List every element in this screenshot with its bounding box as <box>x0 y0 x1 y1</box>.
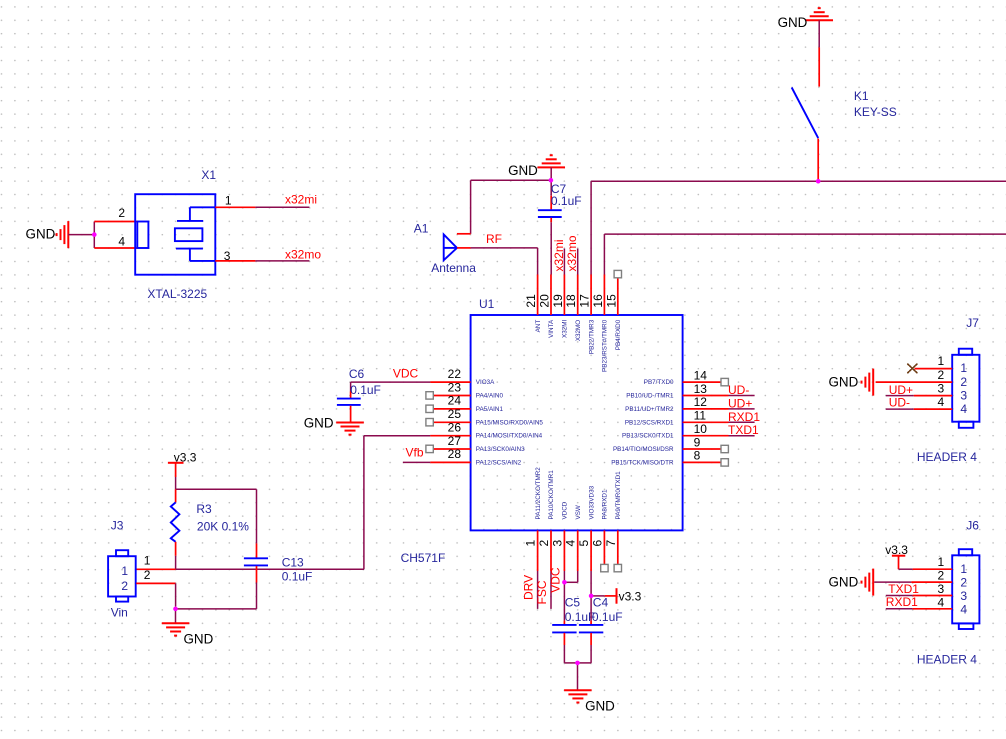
no-connect marker pin 27 <box>426 445 433 452</box>
svg-text:4: 4 <box>938 595 945 609</box>
junction at C7 top <box>549 178 554 183</box>
svg-text:14: 14 <box>694 368 708 382</box>
svg-text:PB11/UD+/TMR2: PB11/UD+/TMR2 <box>625 406 674 413</box>
svg-text:RXD1: RXD1 <box>728 410 760 424</box>
power symbol GND (at C6) <box>304 416 364 435</box>
svg-text:0.1uF: 0.1uF <box>551 194 582 208</box>
wire <box>93 222 95 249</box>
svg-text:CH571F: CH571F <box>401 551 446 565</box>
svg-text:UD-: UD- <box>889 396 910 410</box>
svg-text:27: 27 <box>448 434 462 448</box>
svg-text:PB14/TIO/MOSI/DSR: PB14/TIO/MOSI/DSR <box>613 446 674 453</box>
svg-text:19: 19 <box>551 294 565 308</box>
svg-text:RXD1: RXD1 <box>886 595 918 609</box>
svg-text:Antenna: Antenna <box>431 261 476 275</box>
svg-text:2: 2 <box>537 540 551 547</box>
net label FSC (vertical) <box>535 580 549 604</box>
X1 pin number 3 <box>224 249 231 263</box>
svg-text:PA4/AIN0: PA4/AIN0 <box>476 393 504 400</box>
J7 designator <box>966 316 979 330</box>
wire <box>471 248 538 275</box>
wire <box>175 556 177 570</box>
C13 designator <box>282 555 304 569</box>
svg-text:2: 2 <box>118 206 125 220</box>
svg-text:ANT: ANT <box>535 320 542 333</box>
svg-text:PB4/RXD0: PB4/RXD0 <box>615 319 622 350</box>
svg-text:6: 6 <box>590 540 604 547</box>
svg-text:18: 18 <box>564 294 578 308</box>
wire <box>471 179 551 181</box>
svg-text:2: 2 <box>938 368 945 382</box>
svg-text:GND: GND <box>184 632 214 647</box>
svg-text:C5: C5 <box>565 596 581 610</box>
wire <box>94 247 137 249</box>
J6 pin number 2 <box>938 568 945 582</box>
J7 pin number 1 <box>938 354 945 368</box>
C7 designator <box>551 182 567 196</box>
svg-text:UD+: UD+ <box>728 396 752 410</box>
wire <box>68 234 94 236</box>
no-ERC marker (X) on J7 pin 1 <box>908 364 917 373</box>
svg-text:RF: RF <box>486 232 502 246</box>
wire <box>603 234 605 274</box>
wire <box>564 571 577 582</box>
wire <box>537 571 539 609</box>
resistor R3 <box>171 489 180 556</box>
R3 value 20K 0.1% <box>197 520 249 534</box>
svg-text:13: 13 <box>694 382 708 396</box>
wire <box>590 571 592 595</box>
no-connect marker pin 15 <box>614 270 621 277</box>
svg-text:v3.3: v3.3 <box>619 590 642 604</box>
junction at K1 / net to pin 17 <box>816 179 821 184</box>
connector J7 <box>952 349 979 428</box>
wire <box>591 180 1006 182</box>
svg-text:3: 3 <box>550 540 564 547</box>
net label x32mo <box>285 248 321 262</box>
wire <box>403 461 430 463</box>
wire <box>886 595 952 597</box>
svg-text:DRV: DRV <box>522 575 536 600</box>
svg-text:VINTA: VINTA <box>548 319 555 338</box>
wire <box>886 608 952 610</box>
net label TXD1 (J6) <box>888 582 919 596</box>
svg-text:UD-: UD- <box>728 383 749 397</box>
svg-text:J6: J6 <box>966 518 979 532</box>
wire <box>457 247 471 249</box>
svg-text:C4: C4 <box>593 596 609 610</box>
net label RF <box>486 232 502 246</box>
no-connect marker pin 6 <box>601 564 608 571</box>
wire <box>591 595 605 597</box>
C6 value 0.1uF <box>350 383 381 397</box>
svg-text:TXD1: TXD1 <box>728 423 759 437</box>
svg-text:K1: K1 <box>854 89 869 103</box>
svg-text:FSC: FSC <box>535 580 549 604</box>
capacitor C13 <box>176 489 269 609</box>
U1 bottom pin numbers <box>524 540 618 547</box>
C7 value 0.1uF <box>551 194 582 208</box>
svg-text:x32mi: x32mi <box>285 193 317 207</box>
C5 value 0.1uF <box>565 610 596 624</box>
svg-text:26: 26 <box>448 421 462 435</box>
junction node at X1 pins 2/4 <box>92 232 97 237</box>
svg-text:12: 12 <box>694 395 708 409</box>
svg-text:PB22/TMR3: PB22/TMR3 <box>588 319 595 354</box>
net label x32mi (vertical) <box>552 239 566 271</box>
net label x32mi <box>285 193 317 207</box>
J6 value HEADER 4 <box>917 652 977 666</box>
svg-text:1: 1 <box>938 555 945 569</box>
svg-text:PA14/MOSI/TXD0/AIN4: PA14/MOSI/TXD0/AIN4 <box>476 433 543 440</box>
svg-text:GND: GND <box>304 416 334 431</box>
wire <box>351 381 431 383</box>
wire <box>604 233 1006 235</box>
J6 designator <box>966 518 979 532</box>
wire <box>886 408 952 410</box>
svg-text:PB23/RST#/TMR0: PB23/RST#/TMR0 <box>602 319 609 372</box>
power symbol GND (at J6) <box>829 569 874 596</box>
wire <box>215 260 309 262</box>
antenna A1 <box>414 221 476 275</box>
svg-text:X32MI: X32MI <box>562 320 569 338</box>
svg-text:VDC: VDC <box>548 567 562 593</box>
J3 pin number 1 <box>144 554 151 568</box>
svg-text:J3: J3 <box>111 518 124 532</box>
svg-text:v3.3: v3.3 <box>885 543 908 557</box>
wire <box>550 571 552 609</box>
J7 pin number 2 <box>938 368 945 382</box>
junction at C5/C4 ground <box>575 661 580 666</box>
svg-text:PA13/SCK0/AIN3: PA13/SCK0/AIN3 <box>476 446 525 453</box>
net label TXD1 <box>728 423 759 437</box>
J6 pin number 1 <box>938 555 945 569</box>
svg-text:25: 25 <box>448 407 462 421</box>
wire <box>563 571 565 581</box>
svg-text:HEADER 4: HEADER 4 <box>917 652 977 666</box>
no-connect marker pin 14 <box>721 378 728 385</box>
svg-text:8: 8 <box>694 449 701 463</box>
svg-text:J7: J7 <box>966 316 979 330</box>
U1 bottom pin names <box>535 467 622 520</box>
power symbol GND (at X1) <box>26 221 69 248</box>
svg-text:17: 17 <box>578 294 592 308</box>
X1 pin number 4 <box>118 234 125 248</box>
svg-text:4: 4 <box>564 540 578 547</box>
svg-text:GND: GND <box>508 163 538 178</box>
connector J3 <box>108 550 136 601</box>
svg-text:PA5/AIN1: PA5/AIN1 <box>476 406 504 413</box>
U1 right pin names <box>611 379 674 466</box>
X1 designator <box>201 168 216 182</box>
power symbol GND (bottom) <box>564 690 615 713</box>
svg-text:PA9/TMR0/TXD1: PA9/TMR0/TXD1 <box>615 471 622 520</box>
svg-text:GND: GND <box>829 575 859 590</box>
svg-text:VDC: VDC <box>393 367 419 381</box>
svg-text:GND: GND <box>778 15 808 30</box>
no-connect marker pin 8 <box>721 459 728 466</box>
power symbol v3.3 (at R3) <box>168 450 197 477</box>
svg-text:5: 5 <box>577 540 591 547</box>
svg-text:0.1uF: 0.1uF <box>592 610 623 624</box>
wire <box>563 249 565 275</box>
wire <box>729 395 755 397</box>
svg-text:20K 0.1%: 20K 0.1% <box>197 520 249 534</box>
svg-text:A1: A1 <box>414 221 429 235</box>
U1 left pin numbers <box>448 367 462 461</box>
capacitor C4 <box>578 596 604 663</box>
wire <box>470 180 472 234</box>
svg-text:X1: X1 <box>201 168 216 182</box>
capacitor C7 <box>538 180 562 274</box>
svg-text:XTAL-3225: XTAL-3225 <box>147 287 207 301</box>
svg-text:VSW: VSW <box>575 505 582 519</box>
svg-text:3: 3 <box>960 388 967 402</box>
svg-text:v3.3: v3.3 <box>174 450 197 464</box>
net label VDC <box>393 367 419 381</box>
net label RXD1 (J6) <box>886 595 918 609</box>
svg-text:PA11/2CKO/TMR2: PA11/2CKO/TMR2 <box>535 467 542 520</box>
wire <box>364 436 430 570</box>
svg-text:GND: GND <box>829 374 859 389</box>
wire <box>886 395 952 397</box>
J7 value HEADER 4 <box>917 450 977 464</box>
svg-text:4: 4 <box>960 402 967 416</box>
svg-text:2: 2 <box>144 568 151 582</box>
svg-text:1: 1 <box>938 354 945 368</box>
net label VDC (vertical) <box>548 567 562 593</box>
svg-text:HEADER 4: HEADER 4 <box>917 450 977 464</box>
svg-text:2: 2 <box>938 568 945 582</box>
svg-text:PB15/TCK/MISO/DTR: PB15/TCK/MISO/DTR <box>611 459 674 466</box>
svg-text:16: 16 <box>591 294 605 308</box>
svg-text:4: 4 <box>938 395 945 409</box>
svg-text:3: 3 <box>938 582 945 596</box>
U1 right pins 14-8 <box>683 382 729 462</box>
net label UD- (J7) <box>889 396 910 410</box>
U1 designator <box>479 297 495 311</box>
wire <box>457 233 471 235</box>
svg-text:11: 11 <box>694 409 707 423</box>
svg-text:Vfb: Vfb <box>406 446 424 460</box>
net label UD- <box>728 383 749 397</box>
svg-text:PA10/CKO/TMR1: PA10/CKO/TMR1 <box>548 470 555 520</box>
svg-text:C13: C13 <box>282 555 304 569</box>
wire <box>729 408 755 410</box>
no-connect marker pin 23 <box>426 392 433 399</box>
svg-text:10: 10 <box>694 422 708 436</box>
net label RXD1 <box>728 410 760 424</box>
svg-text:PA8/RXD1: PA8/RXD1 <box>602 489 609 519</box>
wire <box>818 20 820 47</box>
svg-text:0.1uF: 0.1uF <box>282 569 313 583</box>
junction pins 3/4 <box>562 580 567 585</box>
X1 pin number 1 <box>225 194 232 208</box>
svg-text:1: 1 <box>225 194 232 208</box>
svg-text:21: 21 <box>524 294 538 308</box>
svg-text:x32mi: x32mi <box>552 239 566 271</box>
svg-text:PB13/SCK0/TXD1: PB13/SCK0/TXD1 <box>622 433 674 440</box>
svg-text:C6: C6 <box>349 367 365 381</box>
svg-text:U1: U1 <box>479 297 495 311</box>
connector J6 <box>952 549 979 629</box>
svg-text:KEY-SS: KEY-SS <box>854 105 897 119</box>
U1 left pin names <box>476 379 544 466</box>
J7 pin number 4 <box>938 395 945 409</box>
U1 top pin numbers <box>524 294 618 308</box>
svg-text:Vin: Vin <box>111 605 128 619</box>
capacitor C5 <box>552 582 577 663</box>
svg-text:x32mo: x32mo <box>285 248 321 262</box>
C13 value 0.1uF <box>282 569 313 583</box>
U1 value CH571F <box>401 551 446 565</box>
svg-text:15: 15 <box>604 294 618 308</box>
wire <box>136 568 364 570</box>
power symbol v3.3 (bottom) <box>605 588 642 604</box>
U1 bottom pins 1-7 <box>538 530 618 571</box>
svg-text:VDCD: VDCD <box>562 501 569 519</box>
no-connect marker pin 24 <box>426 405 433 412</box>
J3 pin number 2 <box>144 568 151 582</box>
wire <box>915 368 953 370</box>
wire <box>577 663 579 690</box>
wire <box>899 568 953 570</box>
no-connect marker pin 7 <box>614 564 621 571</box>
U1 left pins 22-28 <box>430 382 470 462</box>
svg-text:3: 3 <box>938 381 945 395</box>
no-connect marker pin 25 <box>426 419 433 426</box>
X1 value XTAL-3225 <box>147 287 207 301</box>
wire <box>175 477 177 489</box>
J7 pin number 3 <box>938 381 945 395</box>
svg-text:PB10/UD-/TMR1: PB10/UD-/TMR1 <box>626 393 674 400</box>
net label UD+ (J7) <box>889 383 913 397</box>
svg-text:7: 7 <box>604 540 618 547</box>
net label Vfb <box>406 446 424 460</box>
svg-text:1: 1 <box>960 361 967 375</box>
wire <box>729 421 755 423</box>
net label DRV (vertical) <box>522 575 536 600</box>
junction at J3 ground <box>173 607 178 612</box>
svg-text:VIO33VD33: VIO33VD33 <box>588 485 595 519</box>
X1 pin number 2 <box>118 206 125 220</box>
C4 value 0.1uF <box>592 610 623 624</box>
capacitor C6 <box>337 382 361 422</box>
wire <box>577 249 579 275</box>
svg-text:28: 28 <box>448 447 462 461</box>
svg-text:PA12/SCS/AIN2: PA12/SCS/AIN2 <box>476 459 522 466</box>
wire <box>874 581 952 583</box>
svg-text:GND: GND <box>585 698 615 713</box>
svg-text:1: 1 <box>144 554 151 568</box>
svg-text:R3: R3 <box>196 502 212 516</box>
C5 designator <box>565 596 581 610</box>
wire <box>590 181 592 274</box>
wire <box>729 435 755 437</box>
svg-text:2: 2 <box>121 579 128 593</box>
svg-text:GND: GND <box>26 227 56 242</box>
svg-text:2: 2 <box>960 375 967 389</box>
junction pin 5 / v3.3 <box>589 594 594 599</box>
J6 pin number 4 <box>938 595 945 609</box>
wire <box>550 167 552 180</box>
power symbol GND (at J7) <box>829 369 874 396</box>
svg-text:20: 20 <box>538 294 552 308</box>
wire <box>176 488 257 490</box>
C4 designator <box>593 596 609 610</box>
svg-text:PA15/MISO/RXD0/AIN5: PA15/MISO/RXD0/AIN5 <box>476 419 544 426</box>
power symbol v3.3 (at J6) <box>885 543 908 569</box>
svg-text:24: 24 <box>448 394 462 408</box>
svg-text:2: 2 <box>960 575 967 589</box>
J6 pin number 3 <box>938 582 945 596</box>
net label UD+ <box>728 396 752 410</box>
svg-text:1: 1 <box>960 562 967 576</box>
J3 designator <box>111 518 124 532</box>
U1 top pin names <box>535 319 622 372</box>
wire <box>175 583 177 606</box>
wire <box>175 609 177 623</box>
svg-text:3: 3 <box>960 589 967 603</box>
power symbol GND (top right) <box>778 8 833 30</box>
power symbol GND (at J3) <box>162 623 214 646</box>
wire <box>876 381 953 383</box>
crystal X1 <box>135 194 215 275</box>
power symbol GND (at C7) <box>508 155 565 178</box>
svg-text:4: 4 <box>118 234 125 248</box>
svg-text:VIO3A: VIO3A <box>476 379 495 386</box>
wire <box>94 221 137 223</box>
svg-text:PB7/TXD0: PB7/TXD0 <box>644 379 674 386</box>
wire <box>215 206 309 208</box>
svg-text:22: 22 <box>448 367 462 381</box>
wire <box>136 582 175 584</box>
svg-text:x32mo: x32mo <box>565 235 579 271</box>
wire <box>818 47 820 86</box>
svg-text:X32MO: X32MO <box>575 320 582 341</box>
svg-text:23: 23 <box>448 380 462 394</box>
U1 right pin numbers <box>694 368 708 462</box>
R3 designator <box>196 502 212 516</box>
switch K1 <box>792 88 897 181</box>
svg-text:0.1uF: 0.1uF <box>350 383 381 397</box>
U1 top pins 21-15 <box>538 275 618 316</box>
svg-text:1: 1 <box>524 540 538 547</box>
svg-text:4: 4 <box>960 602 967 616</box>
C6 designator <box>349 367 365 381</box>
no-connect marker pin 9 <box>721 445 728 452</box>
net label x32mo (vertical) <box>565 235 579 271</box>
J3 value Vin <box>111 605 128 619</box>
op-amp U1 body (IC CH571F) <box>471 315 683 530</box>
svg-text:PB12/SCS/RXD1: PB12/SCS/RXD1 <box>625 419 674 426</box>
svg-text:9: 9 <box>694 435 701 449</box>
svg-text:1: 1 <box>121 564 128 578</box>
